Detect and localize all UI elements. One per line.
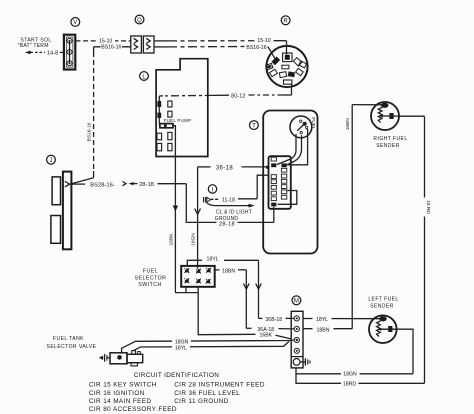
fuel selector switch S1 (181, 266, 215, 287)
svg-text:"BAT" TERM: "BAT" TERM (18, 43, 49, 49)
svg-text:28-18: 28-18 (219, 222, 235, 228)
svg-text:LEFT FUEL: LEFT FUEL (368, 296, 398, 302)
svg-text:18BN: 18BN (222, 269, 235, 275)
svg-text:36-18: 36-18 (216, 165, 234, 171)
node M (circled label) (292, 296, 301, 305)
svg-text:15-10: 15-10 (257, 38, 270, 44)
svg-text:FUEL TANK: FUEL TANK (53, 336, 84, 342)
svg-text:SWITCH: SWITCH (138, 282, 161, 288)
wire 36B-18 label/link into M row1 (259, 317, 295, 323)
fuel pump connector (bold box with dot) (160, 124, 173, 128)
label START SOL "BAT" TERM (18, 37, 52, 49)
label BS16-16 (left) (101, 43, 123, 50)
svg-text:RIGHT FUEL: RIGHT FUEL (373, 136, 407, 142)
svg-text:CIR 36 FUEL LEVEL: CIR 36 FUEL LEVEL (174, 390, 240, 397)
svg-text:CIR 16 IGNITION: CIR 16 IGNITION (89, 390, 145, 397)
svg-text:CIR 80 ACCESSORY FEED: CIR 80 ACCESSORY FEED (89, 406, 177, 413)
label RIGHT FUEL SENDER (373, 136, 407, 149)
svg-text:CIR 15 KEY SWITCH: CIR 15 KEY SWITCH (89, 381, 157, 388)
svg-text:CIR 14 MAIN FEED: CIR 14 MAIN FEED (89, 398, 152, 405)
wire gauge right terminal down to grid row1 (287, 128, 307, 164)
svg-text:CIRCUIT IDENTIFICATION: CIRCUIT IDENTIFICATION (134, 372, 220, 379)
svg-text:36B-18: 36B-18 (265, 317, 282, 323)
wire 80-12 from R to fuel pump (159, 84, 291, 101)
svg-text:CIR 28 INSTRUMENT FEED: CIR 28 INSTRUMENT FEED (174, 381, 265, 388)
node V (circled label) (71, 18, 80, 27)
svg-text:18YL: 18YL (175, 345, 187, 351)
label FUEL TANK SELECTOR VALVE (47, 336, 97, 350)
wire BS16-16 dashed vertical down to J row (71, 47, 94, 184)
svg-text:SELECTOR VALVE: SELECTOR VALVE (47, 344, 97, 350)
wire 14-8 arrow to BAT terminal (25, 51, 64, 57)
left fuel sender (369, 315, 397, 343)
connector R (ignition switch round multi-pin connector) (266, 46, 308, 87)
label 15-10 (right) (255, 37, 274, 45)
svg-text:BS16-16: BS16-16 (87, 122, 93, 141)
fuel pump terminals (157, 101, 172, 125)
svg-text:GROUND: GROUND (215, 216, 239, 222)
right fuel sender (371, 102, 399, 130)
fuel pump lower terminals (157, 132, 172, 150)
wire BS16-16 from Q to R (154, 46, 276, 60)
wire 18RD from right sender arm down right side (399, 116, 431, 383)
svg-text:BS16-16: BS16-16 (101, 45, 121, 51)
svg-text:18 RD: 18 RD (425, 200, 431, 214)
svg-text:FUEL PUMP: FUEL PUMP (164, 118, 192, 123)
wire BS16-16 from junction to Q (94, 46, 131, 48)
wire 36-18 to instrument connector (198, 165, 270, 171)
wire jog below switch (16BK to switch base) (175, 287, 198, 293)
svg-text:18BN: 18BN (317, 328, 330, 334)
node T (circled label) (250, 121, 259, 130)
wire 36A-18 label/link into M row2 (246, 327, 294, 333)
block T outline (instrument cluster) (263, 111, 317, 254)
svg-text:SENDER: SENDER (376, 143, 400, 149)
label 16BK (at M strip) (256, 331, 276, 339)
wire 18GN from valve to M row3 (122, 338, 295, 353)
wire 18BN from M row2 to 16BN junction (303, 326, 352, 334)
svg-text:80-12: 80-12 (231, 93, 245, 99)
svg-text:T: T (252, 123, 256, 129)
wire 11-18 with in-line connector symbol (204, 175, 269, 203)
fuel tank selector valve (99, 351, 143, 366)
svg-text:16BK: 16BK (168, 233, 174, 246)
wire 15-10 from Q to R (154, 41, 287, 55)
svg-text:36A-18: 36A-18 (257, 327, 274, 333)
connector J (bulkhead connector bars) (51, 172, 72, 250)
node R (circled label) (281, 16, 290, 25)
label BS16-16 (right) (246, 44, 268, 51)
connector Q (two inline connector halves with pin chevrons) (131, 36, 154, 53)
connector V (starter solenoid connector) (64, 35, 75, 70)
node L (circled label) (140, 72, 149, 81)
wire 16BN from right sender down to 18BN junction (345, 105, 381, 329)
svg-text:M: M (294, 299, 299, 305)
svg-text:CL & ID LIGHT: CL & ID LIGHT (216, 210, 252, 216)
wire 15-10 from V to Q (dashed) (76, 40, 132, 42)
wire 18RD from M bottom to right sender arm (296, 374, 425, 388)
fuel gauge U1 (290, 116, 312, 138)
svg-text:BS16-16: BS16-16 (246, 45, 266, 51)
svg-text:28-18: 28-18 (139, 182, 154, 188)
wire 18YL from switch to M connector (187, 255, 261, 318)
svg-text:16BK: 16BK (259, 333, 272, 339)
wire 18YL from M row1 to left sender (303, 316, 381, 324)
label FUEL SELECTOR SWITCH (135, 269, 167, 289)
wire 18YL from valve to M row3 (134, 342, 289, 352)
ground symbol at M terminal 5 (300, 358, 310, 365)
block L outline (fuel pump housing) (156, 59, 208, 157)
wire 18GN from M bottom to left sender arm (296, 368, 413, 378)
svg-text:V: V (73, 20, 77, 26)
svg-text:BS28-16-: BS28-16- (90, 182, 115, 188)
label LEFT FUEL SENDER (368, 296, 398, 309)
svg-text:FUEL: FUEL (143, 269, 158, 275)
node Q (circled label) (135, 15, 144, 24)
svg-text:SENDER: SENDER (370, 303, 394, 309)
connector grid in T block (269, 156, 291, 209)
wire ground stub arrow (207, 203, 255, 208)
wire 18BN from switch to M connector (215, 269, 249, 329)
wire 16BK into M row3 (276, 335, 291, 338)
svg-text:11-18: 11-18 (222, 197, 235, 203)
svg-text:SELECTOR: SELECTOR (135, 275, 167, 281)
svg-text:18YL: 18YL (316, 317, 328, 323)
wire BS28-16 / 28-18 row from J (70, 182, 187, 189)
svg-text:18RD: 18RD (343, 382, 357, 388)
connector M (terminal strip) (291, 311, 303, 368)
label CL & ID LIGHT GROUND (215, 210, 252, 223)
wire 18GN from left sender arm down to M (397, 329, 414, 374)
svg-text:18GN: 18GN (343, 372, 357, 378)
node J (circled label) (47, 155, 56, 164)
wire gauge to grid (middle) (287, 135, 301, 164)
svg-text:FUEL: FUEL (310, 117, 316, 130)
wire 16GN vertical from 36-18 down to selector switch (191, 167, 201, 269)
svg-text:18YL: 18YL (206, 256, 218, 262)
label 15-10 (left) (97, 37, 116, 45)
svg-text:R: R (283, 19, 288, 25)
svg-text:J: J (50, 158, 53, 164)
svg-text:CIR 11 GROUND: CIR 11 GROUND (174, 398, 229, 405)
wire 16BK from pump connector down left side (168, 126, 178, 293)
node I (circled label) (208, 185, 216, 194)
wire switch bottom to 16BK run (198, 287, 256, 335)
circuit identification table (89, 372, 265, 413)
wire 28-18 down and right to instrument ground (186, 184, 273, 228)
svg-text:16BN: 16BN (345, 118, 351, 131)
svg-text:Q: Q (137, 18, 142, 24)
wire gauge to grid (left) (277, 134, 296, 165)
wire grid lower right loop to ground pin (278, 191, 297, 205)
svg-text:16GN: 16GN (191, 233, 197, 246)
svg-text:14-8: 14-8 (47, 51, 58, 57)
